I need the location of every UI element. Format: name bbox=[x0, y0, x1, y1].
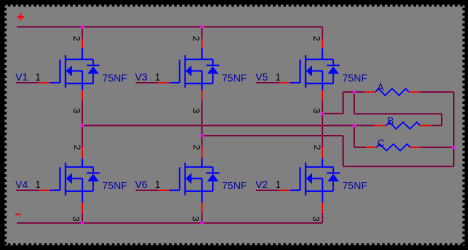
wire phase C path (middle leg node to bottom return) bbox=[202, 135, 343, 137]
wire source of V1_1 to phase node bbox=[81, 100, 83, 125]
pin 3 (source) of V6_1 bbox=[201, 179, 203, 203]
svg-text:1: 1 bbox=[35, 73, 40, 84]
svg-text:C: C bbox=[377, 138, 384, 149]
border frame left bbox=[0, 0, 7, 250]
wire phase node to drain of V6_1 bbox=[201, 136, 203, 147]
pin 3 (source) of V3_1 bbox=[201, 71, 203, 90]
svg-text:1: 1 bbox=[155, 180, 160, 191]
resistor A bbox=[365, 89, 420, 96]
wire right edge vertical (A right to C right) bbox=[453, 92, 455, 166]
transistor V3_1 (N-MOSFET with body diode) bbox=[180, 55, 220, 88]
svg-text:V1: V1 bbox=[15, 73, 28, 84]
wire gate net V4 bbox=[16, 189, 39, 191]
pin 3 (source) of V1_1 bbox=[81, 71, 83, 90]
wire gate net V2 bbox=[256, 189, 279, 191]
wire phase node to drain of V4_1 bbox=[81, 126, 83, 147]
wire resistor C row bbox=[354, 146, 365, 148]
wire source of V6_1 to - rail bbox=[201, 213, 203, 223]
junction B row branch bbox=[353, 124, 356, 127]
power symbol + (positive terminal label) bbox=[17, 13, 24, 20]
transistor V4_1 (N-MOSFET with body diode) bbox=[60, 163, 100, 196]
junction + rail / V1_1 drain bbox=[81, 25, 84, 28]
wire gate net V6 bbox=[136, 189, 159, 191]
junction - rail / V4_1 source bbox=[81, 221, 84, 224]
wire source of V4_1 to - rail bbox=[81, 213, 83, 223]
pin 3 (source) of V5_1 bbox=[322, 71, 324, 90]
wire source of V5_1 to phase node bbox=[321, 100, 323, 113]
pin 3 (source) of V4_1 bbox=[81, 179, 83, 203]
pin 1 (gate) of V2_1 bbox=[290, 189, 300, 191]
pin 1 (gate) of V4_1 bbox=[50, 189, 60, 191]
pin 2 (drain) of V3_1 bbox=[201, 39, 203, 48]
node + : positive DC rail wire bbox=[17, 26, 322, 28]
svg-text:A: A bbox=[377, 82, 384, 93]
wire branch A row down to B return bbox=[353, 92, 355, 114]
junction phase node leg1 bbox=[81, 124, 84, 127]
wire resistor A row bbox=[343, 91, 365, 93]
pin 3 (source) of V2_1 bbox=[322, 179, 324, 203]
pin 1 (gate) of V1_1 bbox=[50, 82, 60, 84]
svg-text:2: 2 bbox=[70, 36, 81, 41]
svg-text:V3: V3 bbox=[135, 73, 148, 84]
wire phase node to drain of V2_1 bbox=[321, 114, 323, 147]
transistor V2_1 (N-MOSFET with body diode) bbox=[300, 163, 340, 196]
svg-text:2: 2 bbox=[311, 145, 322, 150]
wire drain of V3_1 to + rail bbox=[201, 27, 203, 39]
svg-text:1: 1 bbox=[275, 180, 280, 191]
border frame right bbox=[462, 0, 468, 250]
junction phase node leg2 bbox=[200, 134, 203, 137]
pin 2 (drain) of V4_1 bbox=[81, 147, 83, 158]
junction A row branch bbox=[353, 90, 356, 93]
wire drain of V5_1 to + rail bbox=[321, 27, 323, 39]
svg-text:1: 1 bbox=[155, 73, 160, 84]
transistor V1_1 (N-MOSFET with body diode) bbox=[60, 55, 100, 88]
svg-text:V4: V4 bbox=[15, 180, 28, 191]
wire gate net V5 bbox=[256, 82, 279, 84]
svg-text:1: 1 bbox=[35, 180, 40, 191]
wire gate net V3 bbox=[136, 82, 159, 84]
svg-text:75NF: 75NF bbox=[222, 73, 247, 84]
svg-text:2: 2 bbox=[190, 36, 201, 41]
wire source of V3_1 to phase node bbox=[201, 100, 203, 136]
svg-text:3: 3 bbox=[311, 108, 322, 113]
pin 2 (drain) of V6_1 bbox=[201, 147, 203, 158]
border frame top bbox=[0, 0, 468, 7]
wire phase A feed (right leg node to resistor row) bbox=[322, 113, 343, 115]
svg-text:3: 3 bbox=[70, 108, 81, 113]
svg-text:3: 3 bbox=[70, 216, 81, 221]
svg-text:1: 1 bbox=[275, 73, 280, 84]
svg-text:75NF: 75NF bbox=[342, 181, 367, 192]
wire gate net V1 bbox=[16, 82, 39, 84]
power symbol - (negative terminal label) bbox=[15, 213, 20, 215]
junction phase node leg3 bbox=[321, 112, 324, 115]
border frame bottom bbox=[0, 243, 468, 250]
pin 1 (gate) of V6_1 bbox=[169, 189, 179, 191]
svg-text:75NF: 75NF bbox=[222, 181, 247, 192]
svg-text:3: 3 bbox=[190, 108, 201, 113]
node - : negative DC rail wire bbox=[17, 222, 322, 224]
svg-text:2: 2 bbox=[310, 36, 321, 41]
wire branch B row down to resistor C bbox=[353, 126, 355, 148]
pin 1 (gate) of V5_1 bbox=[290, 82, 300, 84]
wire drain of V1_1 to + rail bbox=[81, 27, 83, 39]
svg-text:V6: V6 bbox=[135, 180, 148, 191]
pin 1 (gate) of V3_1 bbox=[169, 82, 179, 84]
junction C right / right edge bbox=[452, 146, 455, 149]
svg-text:V2: V2 bbox=[256, 180, 269, 191]
transistor V6_1 (N-MOSFET with body diode) bbox=[180, 163, 220, 196]
transistor V5_1 (N-MOSFET with body diode) bbox=[300, 55, 340, 88]
wire source of V2_1 to - rail bbox=[321, 213, 323, 223]
svg-text:3: 3 bbox=[190, 216, 201, 221]
pin 2 (drain) of V1_1 bbox=[81, 39, 83, 48]
svg-text:75NF: 75NF bbox=[342, 73, 367, 84]
pin 2 (drain) of V5_1 bbox=[321, 39, 323, 48]
svg-text:75NF: 75NF bbox=[102, 181, 127, 192]
svg-text:2: 2 bbox=[71, 145, 82, 150]
wire phase B row (left leg node to resistor B) bbox=[82, 125, 374, 127]
svg-text:2: 2 bbox=[190, 145, 201, 150]
svg-text:3: 3 bbox=[310, 216, 321, 221]
junction - rail / V6_1 source bbox=[200, 221, 203, 224]
svg-text:B: B bbox=[387, 116, 394, 127]
pin 2 (drain) of V2_1 bbox=[321, 147, 323, 158]
svg-text:V5: V5 bbox=[256, 73, 269, 84]
svg-text:75NF: 75NF bbox=[102, 73, 127, 84]
junction + rail / V3_1 drain bbox=[200, 25, 203, 28]
resistor C bbox=[365, 144, 420, 151]
resistor B bbox=[374, 122, 431, 129]
